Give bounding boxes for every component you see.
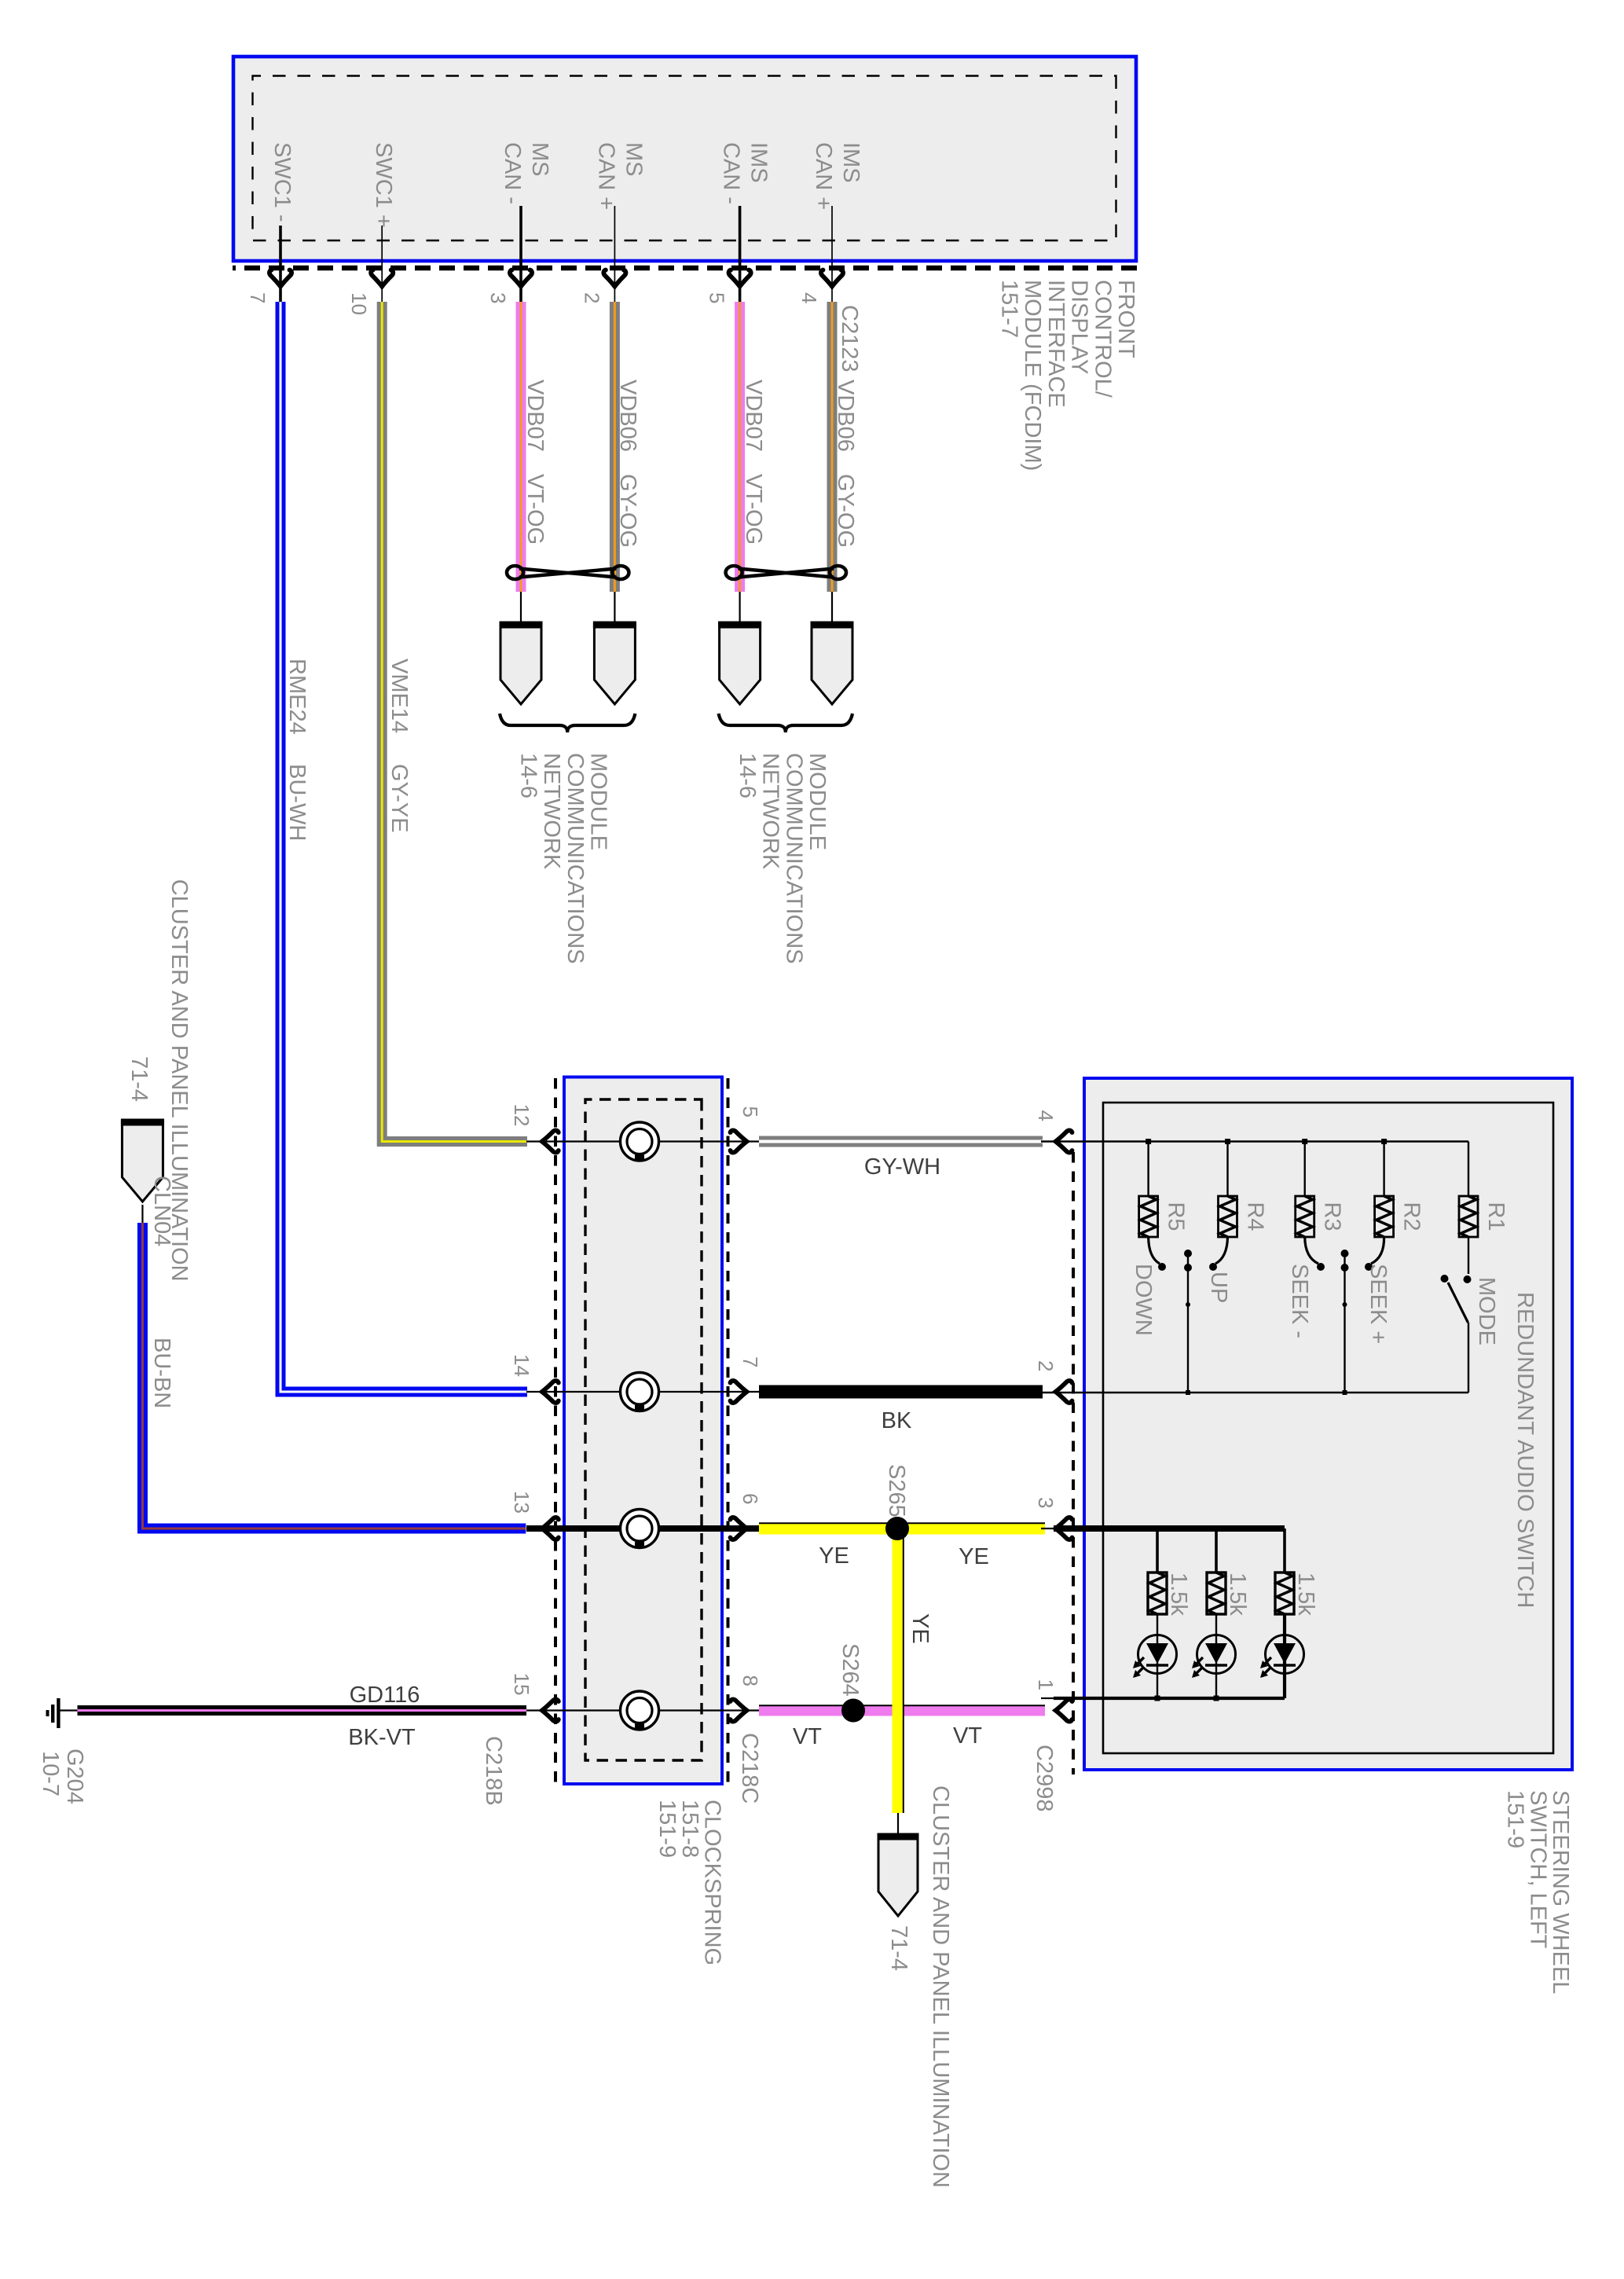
- svg-text:GY-WH: GY-WH: [864, 1154, 940, 1180]
- svg-text:14: 14: [510, 1354, 533, 1377]
- svg-text:VDB07: VDB07: [522, 380, 548, 452]
- svg-text:MODE: MODE: [1474, 1277, 1499, 1345]
- svg-text:FRONT: FRONT: [1113, 280, 1138, 358]
- svg-text:COMMUNICATIONS: COMMUNICATIONS: [563, 753, 588, 964]
- svg-text:VT-OG: VT-OG: [741, 474, 766, 545]
- svg-text:BU-BN: BU-BN: [149, 1338, 174, 1408]
- svg-text:151-7: 151-7: [997, 280, 1022, 338]
- svg-text:14-6: 14-6: [735, 753, 760, 798]
- svg-text:71-4: 71-4: [126, 1056, 152, 1102]
- svg-text:C2998: C2998: [1032, 1745, 1057, 1811]
- svg-text:4: 4: [797, 292, 821, 303]
- svg-text:1.5k: 1.5k: [1225, 1573, 1250, 1616]
- svg-text:GY-OG: GY-OG: [615, 474, 640, 548]
- svg-text:BK: BK: [882, 1408, 912, 1433]
- svg-text:BK-VT: BK-VT: [348, 1725, 416, 1750]
- svg-text:MS: MS: [621, 142, 646, 177]
- svg-text:SWITCH, LEFT: SWITCH, LEFT: [1525, 1790, 1550, 1949]
- svg-text:YE: YE: [907, 1613, 933, 1644]
- svg-text:1.5k: 1.5k: [1293, 1573, 1318, 1616]
- svg-text:2: 2: [1034, 1360, 1058, 1371]
- svg-text:IMS: IMS: [746, 142, 772, 183]
- svg-text:14-6: 14-6: [515, 753, 541, 798]
- svg-text:YE: YE: [959, 1544, 989, 1569]
- svg-text:REDUNDANT AUDIO SWITCH: REDUNDANT AUDIO SWITCH: [1512, 1292, 1538, 1608]
- svg-text:VME14: VME14: [387, 659, 412, 733]
- svg-text:UP: UP: [1206, 1272, 1231, 1303]
- svg-text:71-4: 71-4: [886, 1925, 911, 1971]
- svg-text:CLUSTER AND PANEL ILLUMINATION: CLUSTER AND PANEL ILLUMINATION: [167, 879, 192, 1282]
- svg-text:7: 7: [739, 1356, 762, 1367]
- svg-text:CAN +: CAN +: [593, 142, 618, 210]
- svg-text:13: 13: [510, 1491, 533, 1514]
- svg-text:2: 2: [580, 292, 603, 303]
- svg-text:DISPLAY: DISPLAY: [1067, 280, 1092, 374]
- svg-text:NETWORK: NETWORK: [539, 753, 564, 870]
- svg-text:1.5k: 1.5k: [1166, 1573, 1191, 1616]
- svg-text:CAN +: CAN +: [811, 142, 836, 210]
- svg-text:VDB07: VDB07: [741, 380, 766, 452]
- svg-text:R4: R4: [1243, 1202, 1268, 1231]
- svg-text:SWC1 -: SWC1 -: [269, 142, 295, 222]
- svg-text:R5: R5: [1164, 1202, 1189, 1231]
- svg-text:15: 15: [510, 1673, 533, 1696]
- svg-text:7: 7: [246, 292, 269, 303]
- svg-text:C218B: C218B: [481, 1736, 506, 1806]
- svg-text:CLOCKSPRING: CLOCKSPRING: [700, 1800, 725, 1965]
- svg-text:STEERING WHEEL: STEERING WHEEL: [1548, 1790, 1573, 1994]
- svg-text:151-9: 151-9: [1503, 1790, 1528, 1848]
- svg-text:MODULE (FCDIM): MODULE (FCDIM): [1020, 280, 1045, 471]
- svg-text:R2: R2: [1399, 1202, 1424, 1231]
- svg-text:SWC1 +: SWC1 +: [371, 142, 396, 228]
- svg-text:VT: VT: [793, 1724, 822, 1749]
- svg-text:6: 6: [739, 1493, 762, 1504]
- svg-text:151-9: 151-9: [654, 1800, 680, 1858]
- svg-text:CLUSTER AND PANEL ILLUMINATION: CLUSTER AND PANEL ILLUMINATION: [928, 1785, 953, 2188]
- svg-text:GD116: GD116: [350, 1683, 420, 1708]
- svg-text:IMS: IMS: [838, 142, 863, 183]
- svg-text:SEEK +: SEEK +: [1366, 1264, 1391, 1344]
- svg-text:S264: S264: [838, 1643, 863, 1697]
- svg-text:RME24: RME24: [284, 659, 310, 735]
- svg-text:3: 3: [486, 292, 510, 303]
- svg-text:5: 5: [739, 1106, 762, 1117]
- svg-text:COMMUNICATIONS: COMMUNICATIONS: [781, 753, 806, 964]
- svg-text:S265: S265: [884, 1464, 909, 1517]
- svg-text:C218C: C218C: [737, 1733, 762, 1804]
- svg-text:YE: YE: [819, 1543, 849, 1569]
- svg-text:VDB06: VDB06: [833, 380, 858, 452]
- svg-text:VT: VT: [953, 1723, 982, 1749]
- svg-text:C2123: C2123: [837, 305, 862, 372]
- svg-text:R3: R3: [1320, 1202, 1345, 1231]
- svg-text:GY-YE: GY-YE: [387, 764, 412, 833]
- svg-text:G204: G204: [62, 1749, 87, 1804]
- svg-text:CONTROL/: CONTROL/: [1090, 280, 1115, 398]
- svg-text:MODULE: MODULE: [586, 753, 611, 850]
- svg-text:1: 1: [1034, 1679, 1058, 1690]
- svg-text:MODULE: MODULE: [805, 753, 830, 850]
- svg-text:SEEK -: SEEK -: [1287, 1264, 1312, 1338]
- svg-text:R1: R1: [1483, 1202, 1509, 1231]
- svg-text:10-7: 10-7: [38, 1751, 63, 1796]
- svg-text:3: 3: [1034, 1497, 1058, 1508]
- svg-text:4: 4: [1034, 1110, 1058, 1121]
- svg-text:10: 10: [347, 292, 371, 315]
- svg-text:DOWN: DOWN: [1131, 1264, 1156, 1336]
- svg-text:MS: MS: [527, 142, 552, 177]
- svg-text:CAN -: CAN -: [500, 142, 525, 204]
- svg-text:INTERFACE: INTERFACE: [1043, 280, 1069, 408]
- svg-text:NETWORK: NETWORK: [758, 753, 783, 870]
- svg-text:VT-OG: VT-OG: [522, 474, 548, 545]
- svg-text:BU-WH: BU-WH: [284, 764, 310, 841]
- svg-text:8: 8: [739, 1675, 762, 1686]
- svg-text:12: 12: [510, 1104, 533, 1127]
- svg-text:5: 5: [706, 292, 729, 303]
- svg-text:GY-OG: GY-OG: [833, 474, 858, 548]
- svg-text:VDB06: VDB06: [615, 380, 640, 452]
- svg-text:CAN -: CAN -: [719, 142, 744, 204]
- svg-text:151-8: 151-8: [677, 1800, 702, 1858]
